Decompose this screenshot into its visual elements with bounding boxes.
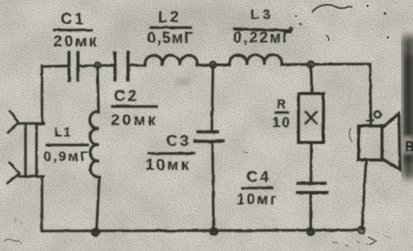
wire: node C to top right corner and down to speaker <box>315 64 372 126</box>
connector X1 input plug: top stub <box>18 122 44 125</box>
node D junction at bottom right rail end <box>358 227 364 233</box>
svg-text:10мг: 10мг <box>237 192 279 208</box>
svg-text:L2: L2 <box>158 9 181 26</box>
label C4 fraction bar <box>241 187 274 190</box>
connector X1 input plug: bottom stub <box>19 175 44 178</box>
wire: L1 to bottom rail <box>97 177 100 231</box>
capacitor C1 plate right <box>76 53 79 81</box>
node A2 junction on bottom rail <box>92 229 99 236</box>
speaker B1 cone <box>382 114 400 170</box>
inductor L3 coil <box>229 55 281 65</box>
inductor L2 coil <box>145 55 197 65</box>
capacitor C1 plate left <box>67 53 70 81</box>
node B2 junction on bottom rail <box>210 228 217 235</box>
wire: speaker bottom lead down to rail <box>362 161 366 230</box>
wire: left vertical from input plug to bottom rail <box>41 177 44 232</box>
connector X1 input plug: parallel pin line 2 <box>35 124 38 177</box>
node C2 junction on bottom rail <box>307 228 314 235</box>
label C3 fraction bar <box>148 152 197 155</box>
wire: C4 to bottom rail <box>309 193 312 232</box>
speaker B1 terminal circle <box>374 111 380 117</box>
wire: C1 to node A <box>78 65 94 68</box>
svg-text:R: R <box>277 97 287 112</box>
light notch at right edge <box>402 136 413 154</box>
svg-text:C4: C4 <box>246 169 271 186</box>
svg-text:0,9мГ: 0,9мГ <box>43 148 89 164</box>
wire: node A to C2 <box>101 64 115 67</box>
label L3 fraction bar <box>233 27 292 32</box>
node C junction <box>308 61 314 67</box>
wire: L2 to node B <box>197 64 210 67</box>
wire: R to C4 <box>310 143 313 184</box>
wire: C2 to L2 <box>128 64 145 67</box>
wire: top rail, input corner to C1 <box>42 65 68 68</box>
label C2 fraction bar <box>111 105 158 108</box>
capacitor C4 plate bottom <box>298 191 328 194</box>
capacitor C2 plate right <box>126 53 129 81</box>
wire: L3 to node C <box>282 63 308 66</box>
svg-text:20мк: 20мк <box>53 34 98 51</box>
svg-text:В: В <box>405 139 413 154</box>
capacitor C4 plate top <box>299 182 326 185</box>
svg-text:10мк: 10мк <box>145 157 190 174</box>
wire: left vertical from top rail to input plug <box>41 67 44 124</box>
svg-text:L3: L3 <box>250 6 274 22</box>
resistor R internal cross mark <box>306 112 317 124</box>
svg-text:0,22мГ: 0,22мГ <box>233 30 292 47</box>
label L2 fraction bar <box>150 26 193 29</box>
connector X1 input plug: parallel pin line 1 <box>24 124 27 177</box>
resistor R body <box>299 94 324 143</box>
wire: node C down to resistor R <box>310 64 313 93</box>
svg-text:0,5мГ: 0,5мГ <box>147 30 194 47</box>
svg-text:C1: C1 <box>61 11 86 28</box>
label L1 fraction bar <box>46 144 90 147</box>
connector X1 input plug: top arrow <box>8 112 19 133</box>
capacitor C2 plate left <box>113 53 116 81</box>
wire: bottom rail <box>42 229 362 232</box>
svg-text:C2: C2 <box>114 88 139 105</box>
node A junction <box>95 63 101 69</box>
svg-text:L1: L1 <box>54 125 71 140</box>
svg-text:20мк: 20мк <box>111 112 158 129</box>
wire: node B down to C3 <box>212 65 213 132</box>
ink drawing <box>8 53 401 236</box>
wire: node A down to L1 <box>98 66 99 113</box>
scan artifacts <box>175 5 389 245</box>
wire: C3 to bottom rail <box>213 141 214 231</box>
node B junction <box>210 62 216 68</box>
inductor L1 coil (vertical) <box>90 112 99 177</box>
connector X1 input plug: bottom arrow <box>8 163 20 184</box>
svg-text:10: 10 <box>272 115 291 131</box>
capacitor C3 plate bottom <box>195 140 223 143</box>
label C1 fraction bar <box>53 29 94 32</box>
wire: node B to L3 <box>216 64 230 67</box>
speaker B1 frame rectangle <box>359 126 383 160</box>
tick mark on speaker top lead <box>367 119 374 122</box>
label R fraction bar <box>275 111 290 113</box>
svg-text:C3: C3 <box>166 133 191 150</box>
capacitor C3 plate top <box>198 130 218 133</box>
